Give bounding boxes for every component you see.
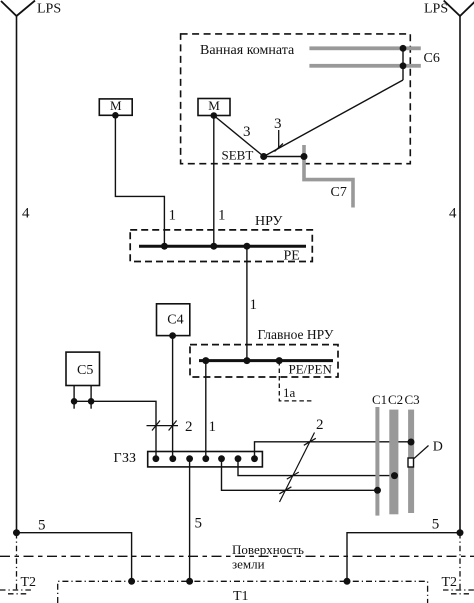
tick on C6 bonding conductor <box>275 144 284 152</box>
svg-text:2: 2 <box>185 419 193 435</box>
svg-text:C3: C3 <box>405 392 420 407</box>
label 2 (left cable) <box>185 419 193 435</box>
junction right conductor bottom <box>457 529 464 536</box>
junction on T1 left <box>128 578 135 585</box>
wire terminal5 to C1 <box>222 459 378 491</box>
terminal 3 <box>186 455 193 462</box>
wire bonding C6 bars <box>402 48 404 80</box>
pin C5 right <box>90 386 92 409</box>
svg-text:PE: PE <box>284 249 300 264</box>
leader for D <box>414 446 429 459</box>
svg-text:М: М <box>208 98 220 113</box>
label SEBT <box>222 148 254 163</box>
svg-text:Главное НРУ: Главное НРУ <box>258 327 334 342</box>
wire C6 to SEBT node <box>264 80 403 157</box>
terminal 5 <box>218 455 225 462</box>
leader for label 3 <box>278 130 280 148</box>
bus PE/PEN <box>199 359 333 362</box>
label Поверхность земли <box>232 542 304 571</box>
svg-text:1: 1 <box>169 208 177 224</box>
label C7 <box>331 185 347 200</box>
distribution board НРУ dashed box <box>130 230 312 262</box>
wire 1a dashed <box>279 361 312 401</box>
wire PE to main board <box>246 246 248 360</box>
svg-text:Т2: Т2 <box>442 575 458 590</box>
label 1a <box>283 385 296 400</box>
label ГЗЗ <box>114 451 136 466</box>
bus PE <box>139 245 306 248</box>
label 3 (C6 bonding conductor) <box>274 116 282 132</box>
svg-text:1a: 1a <box>283 385 296 400</box>
label D <box>433 439 443 454</box>
svg-text:1: 1 <box>250 297 258 313</box>
svg-text:LPS: LPS <box>424 2 448 17</box>
svg-text:C4: C4 <box>167 313 183 328</box>
label 4 left <box>22 206 30 222</box>
pipe C6 upper bar <box>309 46 420 50</box>
pipe C6 lower bar <box>309 64 420 68</box>
component C5 <box>66 352 100 385</box>
label PE <box>284 249 300 264</box>
svg-text:PE/PEN: PE/PEN <box>289 361 333 376</box>
svg-text:C6: C6 <box>424 51 440 66</box>
earth electrode T1 <box>58 581 428 603</box>
pipe C3 <box>408 410 414 513</box>
wire PE/PEN to ГЗЗ <box>205 361 207 459</box>
earth electrode T2 left <box>0 533 33 594</box>
label 1 (M1 conductor) <box>169 208 177 224</box>
wire left conductor to T1 <box>17 533 132 582</box>
junction PE/PEN middle <box>243 357 250 364</box>
junction PE/PEN left <box>202 357 209 364</box>
wire right conductor to T1 <box>347 533 460 582</box>
junction on C6 upper bar <box>400 45 407 52</box>
junction on C7 <box>301 153 308 160</box>
svg-text:3: 3 <box>274 116 282 132</box>
label 4 right <box>449 206 457 222</box>
earthing terminal block ГЗЗ <box>148 452 263 467</box>
junction C4 terminal <box>169 332 176 339</box>
junction C5 right <box>88 398 95 405</box>
svg-text:1: 1 <box>209 419 217 435</box>
junction on T1 middle <box>186 578 193 585</box>
junction PE bus right <box>243 243 250 250</box>
svg-text:5: 5 <box>432 517 440 533</box>
svg-text:Т2: Т2 <box>21 575 37 590</box>
label Ванная комната <box>200 43 295 58</box>
label НРУ <box>255 214 283 229</box>
svg-text:земли: земли <box>232 556 265 571</box>
svg-text:3: 3 <box>243 124 251 140</box>
wire C5 to ГЗЗ <box>74 401 156 458</box>
pin C5 left <box>73 386 75 409</box>
svg-text:C7: C7 <box>331 185 347 200</box>
label 2 (right cable) <box>316 417 324 433</box>
label 1 (riser) <box>250 297 258 313</box>
label 5 (left) <box>38 518 46 534</box>
junction M1 terminal <box>112 112 119 119</box>
cable group marker 2 <box>147 421 179 431</box>
label 1 (main earthing conductor) <box>209 419 217 435</box>
svg-text:1: 1 <box>218 208 226 224</box>
node SEBT <box>260 153 267 160</box>
motor M2 <box>198 98 230 115</box>
terminal 4 <box>202 455 209 462</box>
junction on C2 <box>391 472 398 479</box>
LPS air terminal left <box>1 1 35 17</box>
label LPS right <box>424 2 448 17</box>
label Т2 right <box>442 575 458 590</box>
wire right down-conductor <box>459 16 461 533</box>
label Главное НРУ <box>258 327 334 342</box>
label PE/PEN <box>289 361 333 376</box>
terminal 6 <box>235 455 242 462</box>
label C2 <box>388 392 403 407</box>
label 5 (right) <box>432 517 440 533</box>
svg-text:ГЗЗ: ГЗЗ <box>114 451 136 466</box>
junction PE bus left <box>161 243 168 250</box>
junction on C6 lower bar <box>400 62 407 69</box>
junction C5 left <box>71 398 78 405</box>
terminal 1 <box>153 455 160 462</box>
svg-text:НРУ: НРУ <box>255 214 283 229</box>
label C1 <box>372 392 387 407</box>
insulating piece D <box>408 458 414 467</box>
svg-text:Ванная комната: Ванная комната <box>200 43 295 58</box>
pipe C7 <box>304 145 353 208</box>
pipe C2 <box>389 410 398 515</box>
bathroom dashed boundary <box>181 34 411 164</box>
junction PE bus middle <box>210 243 217 250</box>
label LPS left <box>37 2 61 17</box>
terminal 7 <box>251 455 258 462</box>
junction on C1 <box>374 487 381 494</box>
svg-text:C2: C2 <box>388 392 403 407</box>
component C4 <box>157 304 190 336</box>
wire terminal7 to C3 <box>255 442 412 459</box>
terminal 2 <box>169 455 176 462</box>
junction on C3 <box>408 439 415 446</box>
svg-text:Т1: Т1 <box>233 589 249 603</box>
cable group marker right <box>279 433 315 503</box>
wire M1 to PE bus <box>115 115 164 246</box>
ground surface line <box>0 555 474 557</box>
svg-text:М: М <box>110 98 122 113</box>
main distribution board dashed box <box>190 345 338 377</box>
wire M2 to SEBT node <box>214 116 264 157</box>
svg-text:5: 5 <box>195 516 203 532</box>
junction left conductor bottom <box>13 529 20 536</box>
label Т2 left <box>21 575 37 590</box>
junction PE/PEN right <box>276 357 283 364</box>
svg-text:C1: C1 <box>372 392 387 407</box>
svg-text:LPS: LPS <box>37 2 61 17</box>
label Т1 <box>233 589 249 603</box>
junction M2 terminal <box>211 112 218 119</box>
svg-text:D: D <box>433 439 443 454</box>
svg-text:5: 5 <box>38 518 46 534</box>
wire ГЗЗ to T1 <box>189 459 191 582</box>
svg-text:C5: C5 <box>77 363 93 378</box>
svg-text:4: 4 <box>449 206 457 222</box>
label 5 (middle) <box>195 516 203 532</box>
wire C4 to ГЗЗ <box>172 336 174 459</box>
svg-text:Поверхность: Поверхность <box>232 542 304 557</box>
wire SEBT to C7 <box>264 156 304 158</box>
earth electrode T2 right <box>443 533 474 594</box>
wire left down-conductor <box>16 16 18 533</box>
svg-text:2: 2 <box>316 417 324 433</box>
svg-text:4: 4 <box>22 206 30 222</box>
LPS air terminal right <box>444 1 474 17</box>
junction on T1 right <box>344 578 351 585</box>
label C6 <box>424 51 440 66</box>
svg-text:SEBT: SEBT <box>222 148 254 163</box>
label 1 (M2 conductor) <box>218 208 226 224</box>
wire terminal6 to C2 <box>238 459 395 476</box>
wire M2 to PE bus <box>213 116 215 247</box>
label 3 (M2 bonding conductor) <box>243 124 251 140</box>
motor M1 <box>99 98 132 115</box>
label C3 <box>405 392 420 407</box>
pipe C1 <box>375 407 379 516</box>
